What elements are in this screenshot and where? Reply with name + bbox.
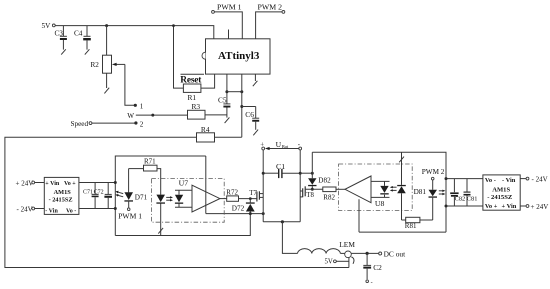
wire chip pin to C6/R4 column — [241, 74, 243, 137]
wire right box bottom rail — [359, 231, 446, 233]
wire gate-return line y213.6 — [206, 213, 263, 215]
op-amp U8 — [345, 176, 371, 203]
svg-text:1: 1 — [140, 103, 144, 111]
svg-text:- 24V: - 24V — [17, 206, 33, 214]
module U2 AM1S-2415SZ left — [44, 177, 79, 214]
svg-text:C5: C5 — [218, 95, 227, 104]
svg-text:PWM 1: PWM 1 — [118, 212, 142, 221]
ground slash under C3 — [61, 49, 66, 54]
svg-text:T8: T8 — [306, 192, 314, 199]
svg-text:DC out: DC out — [384, 250, 407, 259]
wire amp output — [220, 198, 227, 200]
LED D71 emission arrows — [117, 192, 123, 194]
SECTION: left driver — [16, 156, 265, 236]
capacitor C81 — [466, 179, 468, 192]
svg-text:5V: 5V — [325, 259, 333, 266]
sensor hook arrow — [351, 257, 354, 264]
terminal +24V right — [520, 205, 526, 207]
svg-text:- Vin: - Vin — [502, 177, 516, 184]
svg-text:U8: U8 — [375, 199, 385, 208]
wire wiper to node 1 — [125, 64, 135, 105]
wire R1 left to 5V rail — [174, 26, 184, 89]
wire PWM1 to chip — [214, 12, 242, 39]
node C2 junction — [366, 252, 369, 255]
svg-text:LEM: LEM — [339, 240, 355, 249]
terminal DC out — [379, 252, 382, 255]
svg-text:D71: D71 — [135, 193, 148, 201]
wire chip pin to C5 — [226, 74, 228, 104]
svg-text:C1: C1 — [276, 162, 285, 171]
svg-text:- 24V: - 24V — [532, 176, 548, 184]
wire box right power line (through amp) — [205, 156, 207, 214]
svg-text:+ Vin: + Vin — [502, 203, 517, 210]
wire right top rail — [312, 152, 446, 232]
dash-dot box optocoupler U7 — [151, 179, 224, 223]
ground slash chip pin — [253, 81, 258, 86]
node 1 — [134, 104, 137, 107]
svg-text:AM1S: AM1S — [54, 189, 72, 196]
svg-text:Vo +: Vo + — [64, 181, 76, 187]
svg-text:ATtinyl3: ATtinyl3 — [218, 50, 260, 62]
svg-text:2: 2 — [140, 120, 144, 128]
svg-text:R2: R2 — [91, 61, 100, 69]
svg-text:- 2415SZ: - 2415SZ — [49, 196, 73, 203]
svg-text:+ 24V: + 24V — [531, 203, 549, 211]
svg-text:R3: R3 — [192, 102, 201, 111]
slash on opto LED feed — [399, 157, 404, 163]
pin stub top — [228, 30, 230, 39]
svg-text:+ Vin: + Vin — [45, 181, 60, 187]
svg-text:-: - — [371, 280, 373, 286]
wire bottom bridge rail — [263, 221, 300, 223]
dash-dot box optocoupler U8 — [339, 164, 413, 211]
photodiode of U8 — [371, 180, 390, 182]
svg-text:D81: D81 — [414, 188, 427, 196]
svg-text:PWM 1: PWM 1 — [217, 2, 242, 11]
pin ground stub on chip bottom — [254, 74, 256, 81]
capacitor C82 — [453, 179, 455, 193]
svg-text:PWM 2: PWM 2 — [422, 168, 445, 176]
wire R1 right to chip reset pin — [201, 74, 215, 88]
svg-text:C82: C82 — [455, 195, 466, 202]
svg-text:Vo -: Vo - — [66, 208, 76, 214]
wiper arrow of R2 — [115, 63, 125, 65]
SECTION: bottom output — [298, 240, 407, 286]
resistor R81 — [402, 219, 406, 221]
svg-text:U: U — [276, 140, 282, 149]
svg-text:D82: D82 — [318, 177, 331, 185]
wire box bottom edge — [115, 214, 250, 236]
wire LEM to DC out — [351, 252, 378, 254]
node center output — [281, 220, 284, 223]
svg-text:D72: D72 — [232, 204, 245, 212]
svg-text:R1: R1 — [188, 93, 197, 102]
svg-text:T7: T7 — [249, 190, 257, 197]
wire R4 right lead — [215, 136, 242, 138]
wire to output inductor — [282, 222, 297, 254]
svg-text:U7: U7 — [179, 179, 189, 188]
svg-text:R82: R82 — [323, 194, 335, 202]
opto light arrows — [166, 196, 171, 198]
SECTION: right driver — [300, 152, 548, 232]
svg-text:Speed: Speed — [71, 120, 89, 128]
terminal C2 ground — [366, 280, 369, 283]
svg-text:5V: 5V — [42, 22, 52, 30]
node 2 — [134, 121, 137, 124]
svg-text:+ 24V: + 24V — [16, 179, 34, 187]
MCU U1 ATtiny13 — [206, 39, 271, 74]
wire T8 gate to R82 — [305, 188, 323, 190]
svg-text:C72: C72 — [94, 189, 104, 195]
wire amp ground stub — [358, 199, 360, 232]
ground slash under C4 — [85, 49, 90, 54]
node C5 branch — [225, 90, 228, 93]
node C6 branch — [240, 105, 243, 108]
svg-text:R71: R71 — [144, 158, 156, 166]
wire long speed loop left — [5, 137, 349, 267]
ground slash under C5 — [225, 117, 230, 123]
wire link Ubat- to D82 column — [300, 172, 312, 174]
svg-text:Vo -: Vo - — [485, 177, 496, 184]
ground slash under R2 — [104, 88, 109, 94]
module U3 AM1S-2415SZ right — [483, 175, 520, 210]
svg-text:W: W — [127, 112, 134, 120]
SECTION: top MCU — [5, 2, 349, 267]
terminal -24V right — [520, 178, 526, 180]
svg-text:C81: C81 — [467, 195, 478, 202]
net Reset label — [181, 73, 205, 75]
svg-text:- Vin: - Vin — [45, 208, 58, 214]
wire gate T7 — [239, 198, 257, 200]
svg-text:AM1S: AM1S — [492, 187, 510, 194]
resistor R82 — [323, 187, 336, 192]
wire PWM2 to chip — [256, 12, 282, 39]
node 5V terminal — [52, 24, 55, 27]
svg-text:- 2415SZ: - 2415SZ — [487, 194, 513, 201]
opto LED (right, on vertical from top rail) — [401, 152, 403, 185]
SECTION: center bridge — [260, 140, 301, 254]
wire Ubat+ vertical (T7 drain column) — [262, 150, 264, 222]
opto LED (inside box) — [160, 203, 162, 235]
svg-text:R81: R81 — [405, 222, 417, 230]
wire Ubat- vertical (T8 column) — [299, 150, 301, 222]
node junction 5V-R2 — [105, 24, 108, 27]
wire right +15V rail — [446, 178, 483, 180]
opto light arrows (right, pointing left) — [391, 186, 396, 188]
svg-text:PWM 2: PWM 2 — [258, 2, 283, 11]
photodiode of U7 — [175, 189, 192, 191]
svg-text:C2: C2 — [373, 263, 382, 272]
ground slash on opto LED return — [158, 228, 163, 234]
wire R71 left down to D71 — [128, 169, 130, 193]
wire LEM return — [348, 258, 350, 268]
svg-text:C4: C4 — [74, 30, 83, 38]
wire 5V rail — [55, 26, 214, 39]
ground slash under C6 — [253, 130, 258, 136]
wire right -15V rail — [446, 205, 483, 207]
LED D81 emission arrows — [439, 190, 444, 192]
wire left supply box: top edge — [115, 156, 206, 236]
wire R3 right to C5 column — [205, 114, 227, 116]
resistor R1 — [183, 84, 201, 92]
wire +15V rail — [79, 182, 115, 184]
terminal PWM 1 (driver input) — [128, 202, 130, 208]
wire R82 to U8 output — [336, 188, 345, 190]
wire -15V rail — [79, 208, 115, 210]
svg-text:C71: C71 — [83, 189, 93, 195]
svg-text:Vo +: Vo + — [485, 203, 498, 210]
inductor L1 — [298, 249, 341, 254]
